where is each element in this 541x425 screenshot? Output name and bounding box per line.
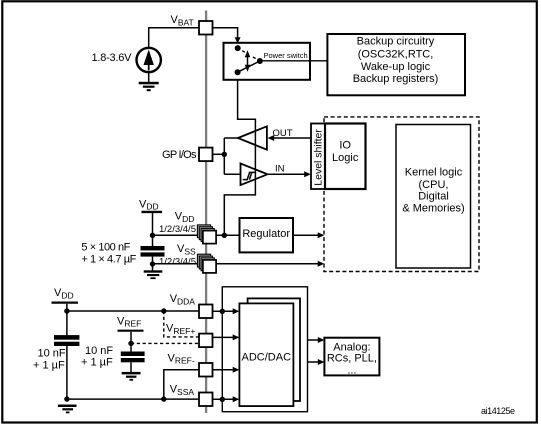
dashed wire VREF to VREF+ pin [131, 342, 199, 344]
arrow VREF+ into ADC [233, 334, 240, 340]
arrow VSSA into ADC [233, 396, 240, 402]
wire OUT from level shifter [274, 137, 312, 139]
switch common contact [257, 58, 263, 64]
wire VREF- to VSSA rail [164, 370, 199, 399]
arrow VSS into kernel domain [318, 261, 325, 267]
wire cap bottom [152, 257, 154, 271]
VDD analog rail bar [52, 302, 79, 304]
wire VREF down [130, 332, 132, 352]
wire source to VBAT pin [149, 28, 199, 48]
node VREF [128, 341, 133, 346]
wire power switch to VDD node (long) [224, 80, 255, 236]
svg-text:Regulator: Regulator [242, 228, 290, 240]
wire VDDA cap to VSSA rail [66, 346, 68, 399]
switch arm (closed, solid) [238, 61, 260, 72]
pin VSSA [199, 393, 213, 407]
svg-text:ADC/DAC: ADC/DAC [242, 351, 292, 363]
level shifter box [311, 124, 325, 190]
switch toggle arrow (double headed) [245, 50, 251, 72]
wire to IN buffer [224, 173, 240, 175]
VDD rail bar [142, 211, 163, 213]
node GPIO junction [222, 152, 227, 157]
svg-text:10 nF: 10 nF [38, 347, 66, 359]
wire VDD stack to regulator node [216, 234, 239, 236]
label analog block [327, 342, 377, 377]
wire VSS to pin stack [153, 263, 204, 265]
svg-text:IN: IN [275, 163, 285, 174]
svg-text:...: ... [347, 364, 356, 376]
analog block box [324, 338, 379, 376]
wire IN to level shifter [268, 173, 306, 175]
svg-text:Kernel logic: Kernel logic [405, 167, 463, 179]
node regulator input [222, 233, 227, 238]
node VREF- on VSSA rail [161, 396, 166, 401]
ground (VREF cap) [122, 372, 141, 381]
dashed wire VDDA to VREF+ pin [164, 311, 199, 337]
svg-text:Wake-up logic: Wake-up logic [361, 61, 431, 73]
output buffer (triangle) [238, 126, 267, 149]
IO logic box [325, 124, 366, 190]
svg-text:GP I/Os: GP I/Os [162, 149, 197, 161]
ground (source) [139, 82, 159, 91]
wire VDDA pin to ADC [213, 310, 234, 312]
pin VDDA [199, 305, 213, 319]
svg-text:+ 1 µF: + 1 µF [81, 357, 113, 369]
svg-text:5 × 100 nF: 5 × 100 nF [81, 241, 130, 253]
svg-text:ai14125e: ai14125e [481, 406, 515, 416]
schmitt hysteresis symbol [243, 172, 256, 179]
VREF rail bar [118, 330, 144, 332]
wire switch to backup circuitry [262, 60, 327, 62]
arrow into analog [318, 337, 325, 343]
svg-text:10 nF: 10 nF [85, 345, 113, 357]
pin GP I/Os [199, 148, 213, 162]
svg-text:RCs, PLL,: RCs, PLL, [327, 353, 377, 365]
dashed digital domain box [324, 117, 479, 272]
pin VREF+ [199, 334, 213, 348]
svg-text:+ 1 × 4.7 µF: + 1 × 4.7 µF [81, 253, 136, 265]
switch contact bottom [235, 69, 241, 75]
wire VDD rail down [152, 213, 154, 235]
pin VREF- [199, 363, 213, 377]
wire regulator to kernel [293, 234, 319, 236]
wire VREF cap to ground [130, 362, 132, 372]
capacitor 10nF plates (VDDA) [54, 335, 79, 346]
node VDDA cap [64, 308, 69, 313]
wire to OUT buffer [224, 137, 238, 139]
chip edge line (gray) [205, 11, 207, 414]
wire VBAT pin to power switch [213, 28, 238, 38]
wire VDD rail to VDDA [67, 304, 199, 311]
svg-text:OUT: OUT [273, 128, 293, 139]
svg-text:Level shifter: Level shifter [313, 129, 325, 186]
power switch box [224, 43, 311, 80]
svg-text:Power switch: Power switch [264, 51, 308, 60]
node VSSA rail left [64, 396, 69, 401]
ground (VDD cap) [144, 270, 163, 279]
pin stack VDD 1/2/3/4/5 [197, 225, 216, 244]
wire GPIO pin to buffers [213, 153, 225, 155]
regulator box [240, 218, 294, 252]
svg-text:Backup circuitry: Backup circuitry [357, 36, 435, 48]
arrow regulator output [318, 232, 325, 238]
backup circuitry box [327, 34, 465, 95]
ADC/DAC back box [248, 298, 300, 401]
svg-text:1.8-3.6V: 1.8-3.6V [92, 52, 133, 64]
svg-text:(OSC32K,RTC,: (OSC32K,RTC, [358, 48, 434, 60]
arrow VDDA into ADC [233, 308, 240, 314]
svg-text:Analog:: Analog: [333, 342, 370, 354]
ground (VSSA) [58, 405, 77, 414]
switch contact top [235, 45, 241, 51]
kernel logic box [396, 125, 471, 269]
svg-text:1/2/3/4/5: 1/2/3/4/5 [159, 256, 196, 267]
label kernel logic [402, 167, 464, 215]
svg-text:& Memories): & Memories) [402, 203, 464, 215]
wire VSS to kernel [216, 263, 318, 265]
svg-text:Backup registers): Backup registers) [353, 73, 439, 85]
wire cap top to plates [152, 235, 154, 246]
wire VREF+ pin to ADC [213, 336, 234, 338]
svg-text:Digital: Digital [418, 191, 449, 203]
wire analog box bottom [308, 361, 319, 363]
wire VREF- pin to ADC [213, 369, 234, 371]
voltage source V supply 1.8-3.6V [137, 48, 161, 72]
node VSSA [220, 397, 225, 402]
label IO logic [332, 139, 359, 164]
wire VSSA rail [67, 398, 200, 400]
arrow into analog (2) [318, 359, 325, 365]
wire VDDA cap vertical [66, 311, 68, 335]
wire GPIO vertical [223, 138, 225, 174]
node VDD cap top [150, 233, 155, 238]
arrow IN into level shifter [304, 171, 311, 177]
pin VBAT [199, 21, 213, 35]
node VDDA [220, 309, 225, 314]
analog domain wire box [222, 287, 307, 412]
wire analog box top [308, 339, 319, 341]
arrow into power switch [235, 37, 241, 43]
capacitor 10nF plates (VREF) [121, 352, 145, 363]
wire VDD to pin stack [153, 234, 204, 236]
capacitor 5x100nF plates [141, 246, 165, 257]
pin stack VSS 1/2/3/4/5 [197, 254, 216, 273]
ADC/DAC front box [239, 303, 293, 406]
node VSS cap bottom [150, 261, 155, 266]
wire source to ground [148, 72, 150, 82]
svg-text:IO: IO [339, 139, 351, 151]
wire VSSA pin to ADC [213, 398, 234, 400]
arrow OUT into buffer [268, 135, 275, 141]
svg-text:+ 1 µF: + 1 µF [33, 359, 65, 371]
node VREF+ tap [161, 308, 166, 313]
switch arm alternate (dashed) [238, 48, 260, 61]
svg-text:(CPU,: (CPU, [419, 179, 449, 191]
svg-text:Logic: Logic [332, 152, 359, 164]
input schmitt buffer (triangle) [241, 164, 268, 186]
arrow VREF- into ADC [233, 367, 240, 373]
label backup circuitry [353, 36, 439, 86]
svg-text:1/2/3/4/5: 1/2/3/4/5 [159, 224, 196, 235]
